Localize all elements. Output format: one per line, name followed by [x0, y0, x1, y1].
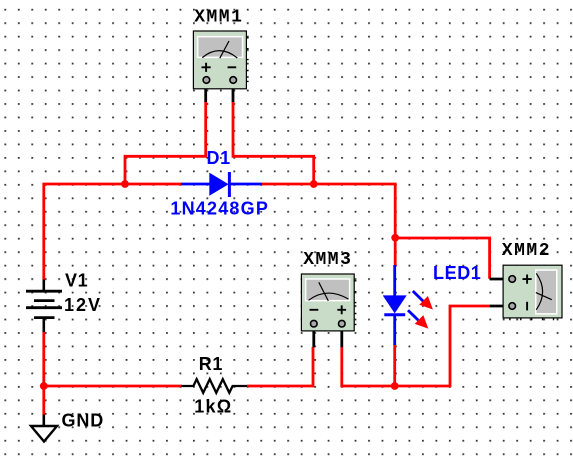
wire diode cathode to corner: [262, 183, 397, 186]
label GND: [62, 411, 105, 431]
wire V1 bottom to GND and rail left: [44, 332, 182, 415]
multimeter XMM1: [193, 31, 248, 102]
label 1kΩ: [194, 397, 232, 417]
wire XMM1 right terminal to node B: [233, 102, 314, 185]
label XMM3: [303, 250, 352, 270]
label R1: [199, 354, 223, 374]
svg-text:1kΩ: 1kΩ: [194, 397, 232, 417]
svg-text:LED1: LED1: [433, 263, 481, 283]
svg-text:XMM1: XMM1: [194, 7, 243, 27]
label XMM2: [502, 241, 551, 261]
svg-text:GND: GND: [62, 411, 105, 431]
wire LED node to XMM2 plus terminal: [395, 238, 489, 279]
label LED1: [433, 263, 481, 283]
svg-text:1N4248GP: 1N4248GP: [170, 198, 269, 218]
svg-text:D1: D1: [207, 148, 231, 168]
svg-text:R1: R1: [199, 354, 223, 374]
junction node A: [121, 180, 129, 188]
LED1: [383, 265, 433, 345]
multimeter XMM3: [301, 274, 356, 347]
svg-text:V1: V1: [65, 271, 88, 291]
svg-text:XMM3: XMM3: [303, 250, 352, 270]
junction node B: [310, 180, 318, 188]
wire XMM3 plus terminal to rail and XMM2 minus terminal: [342, 306, 490, 386]
wire R1 right to XMM3 minus terminal: [247, 347, 313, 386]
multimeter XMM2: [490, 265, 562, 320]
label D1: [207, 148, 231, 168]
wire LED cathode to bottom rail: [393, 344, 396, 386]
wire corner down to LED anode node: [394, 184, 397, 266]
label 1N4248GP: [170, 198, 269, 218]
junction LED anode node: [391, 234, 399, 242]
junction V1 bottom node: [40, 382, 48, 390]
diode D1: [181, 172, 262, 197]
label XMM1: [194, 7, 243, 27]
label 12V: [64, 295, 102, 315]
ground: [31, 415, 57, 442]
junction LED cathode node: [391, 382, 399, 390]
label V1: [65, 271, 88, 291]
svg-text:XMM2: XMM2: [502, 241, 551, 261]
svg-text:12V: 12V: [64, 295, 102, 315]
wire V1 top to diode row: [44, 184, 181, 280]
resistor R1: [181, 379, 247, 393]
battery V1: [26, 280, 62, 333]
wire XMM1 left terminal to node A: [125, 102, 206, 185]
